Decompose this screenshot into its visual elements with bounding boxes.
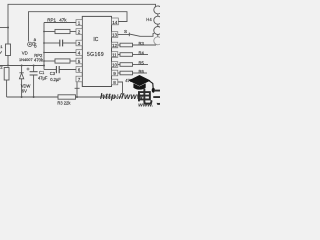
svg-text:5G169: 5G169 [87, 52, 104, 58]
wire R2 bottom to ground rail [6, 80, 8, 97]
svg-text:R5: R5 [139, 61, 145, 66]
wire R1 bottom to DC rail [7, 56, 9, 66]
capacitor row3 plates [60, 40, 63, 47]
pin 7 [76, 76, 82, 82]
resistor R6 (pin9) [120, 71, 133, 75]
svg-text:47k: 47k [59, 18, 67, 23]
wire pin8 down to ground rail [118, 82, 123, 97]
pin 2 [76, 29, 82, 35]
svg-text:5: 5 [78, 59, 81, 64]
svg-text:H4: H4 [146, 17, 152, 22]
svg-text:S: S [124, 29, 127, 34]
svg-text:6: 6 [78, 68, 81, 73]
pin 12 [112, 42, 118, 48]
svg-text:VD: VD [22, 51, 28, 56]
svg-text:8: 8 [113, 80, 116, 85]
resistor R3 (pin12) [120, 43, 133, 47]
lamp H4 column [154, 6, 162, 45]
node dot A 220V junction [7, 27, 9, 29]
svg-text:10: 10 [112, 63, 118, 68]
wire pin13 to switch [118, 34, 130, 36]
resistor R4 (pin11) [120, 53, 133, 57]
resistor R1 [6, 44, 11, 56]
svg-text:7: 7 [78, 77, 81, 82]
resistor RP2 body [55, 59, 70, 63]
svg-text:470k: 470k [34, 58, 44, 63]
node dot ground pin7 [76, 96, 78, 98]
wire row pin11 [118, 54, 120, 56]
resistor R2 [4, 68, 9, 81]
svg-text:IC: IC [93, 37, 98, 43]
pin 11 [112, 52, 118, 58]
wire switch to lamps [140, 33, 154, 36]
pin 3 [76, 40, 82, 46]
capacitor C3 plates [56, 66, 59, 73]
node dot bus supply [43, 65, 45, 67]
pin 14 [112, 18, 119, 25]
svg-text:2V: 2V [0, 49, 2, 54]
svg-text:http://www: http://www [100, 92, 144, 101]
svg-text:R6: R6 [139, 69, 145, 74]
wire row pin3 [44, 42, 60, 44]
capacitor C1 plates [30, 72, 38, 75]
svg-text:VDW: VDW [21, 83, 31, 88]
node dot bus row4 [43, 52, 45, 54]
wire row pin6 [44, 69, 56, 71]
svg-text:14: 14 [112, 20, 118, 25]
svg-text:6V: 6V [22, 89, 27, 94]
pin 13 [112, 32, 118, 38]
wire row pin9 [118, 72, 120, 74]
node dot ground C1 [33, 96, 35, 98]
wire row pin2 [44, 31, 55, 33]
wire C1 branch [33, 66, 35, 72]
resistor R3 body on ground rail [58, 95, 76, 99]
svg-text:0.2µF: 0.2µF [50, 77, 61, 82]
node dot bus row5 [43, 60, 45, 62]
C1 plus sign [27, 68, 30, 71]
svg-text:2: 2 [78, 30, 81, 35]
node dot ground zener [21, 96, 23, 98]
svg-text:11: 11 [112, 53, 117, 58]
zener VDW [19, 73, 23, 79]
wire pin7 to ground [76, 79, 79, 97]
svg-text:1N4007: 1N4007 [19, 57, 33, 62]
wire left bus [43, 23, 45, 70]
watermark graduation cap [129, 75, 155, 93]
pin 10 [112, 62, 118, 68]
svg-text:9: 9 [113, 71, 116, 76]
switch S [129, 33, 140, 37]
resistor RP1 body [55, 29, 70, 33]
svg-text:4: 4 [78, 51, 81, 56]
svg-text:47µF: 47µF [38, 75, 48, 80]
background [0, 0, 160, 110]
wire top supply rail [8, 4, 156, 44]
wire row pin5 [44, 60, 55, 62]
probe terminal right [32, 42, 35, 45]
wire zener branch [21, 66, 23, 73]
pin 1 [76, 20, 82, 26]
svg-text:R3 22k: R3 22k [57, 100, 71, 105]
wire DC rail horizontal [0, 65, 44, 67]
node dot bus row3 [43, 42, 45, 44]
pin 9 [112, 70, 118, 76]
svg-text:3: 3 [78, 41, 81, 46]
IC U1 box [82, 16, 111, 86]
svg-text:www.: www. [138, 103, 153, 109]
svg-text:C3: C3 [50, 71, 56, 76]
svg-text:1: 1 [78, 21, 81, 26]
node dot zener tap [21, 65, 23, 67]
wire second rail pin14 loop [29, 12, 128, 42]
wire row pin12 [118, 44, 120, 46]
node dot DC rail R1/R2 [7, 65, 9, 67]
svg-text:12: 12 [112, 43, 118, 48]
pin 5 [76, 58, 82, 64]
node dot bus row2 [43, 31, 45, 33]
wire row pin1 [44, 22, 76, 24]
pin 6 [76, 67, 82, 73]
resistor R5 (pin10) [120, 63, 133, 67]
wire 220V input to node A [0, 27, 8, 29]
probe terminal left [28, 42, 32, 46]
pin 8 [112, 79, 118, 85]
svg-text:13: 13 [112, 33, 118, 38]
pin 4 [76, 50, 82, 56]
wire row pin4 [44, 52, 76, 54]
node dot C1 tap [33, 65, 35, 67]
svg-text:R3: R3 [139, 41, 145, 46]
svg-text:R4: R4 [139, 51, 145, 56]
wire ground bottom rail [7, 96, 123, 98]
svg-text:RP1: RP1 [47, 18, 56, 23]
wire row pin10 [118, 64, 120, 66]
